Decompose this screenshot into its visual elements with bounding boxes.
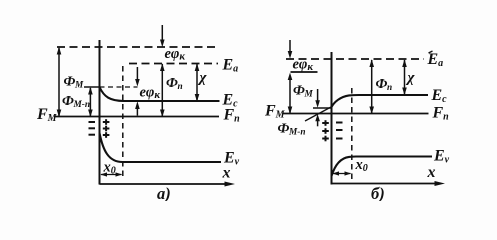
dimension chi (b) <box>402 59 407 95</box>
svg-text:x: x <box>222 165 231 182</box>
interface Ec level tick (b) <box>313 107 332 109</box>
metal vacuum level line (b) <box>291 71 318 73</box>
x0 double arrow (b) <box>332 171 351 175</box>
label Ea (b) <box>429 51 433 53</box>
Fermi level line FM-Fn (b) <box>283 113 429 115</box>
Ec peak level tick solid (a) <box>84 86 100 88</box>
x0 double arrow (a) <box>100 172 122 176</box>
dimension Phi-n (a) <box>160 63 165 117</box>
x axis (a) <box>100 182 236 187</box>
metal vacuum level dashed line (a) <box>57 46 217 48</box>
plus charges (b) <box>322 120 329 141</box>
minus charges (b) <box>336 123 343 139</box>
svg-text:χ: χ <box>198 70 208 86</box>
plus charges (a) <box>103 119 110 138</box>
dimension chi (a) <box>195 63 200 101</box>
Ea dashed line (a) <box>129 63 218 65</box>
Ec peak level dashed extension (a) <box>100 86 138 88</box>
Ev band curve (a) <box>100 133 222 162</box>
dimension Phi-n (b) <box>369 59 374 114</box>
PhiM-n leader line (b) <box>305 107 331 121</box>
svg-text:а): а) <box>157 184 171 201</box>
metal boundary vertical line (b) <box>331 52 333 185</box>
Ea dashed line (b) <box>286 58 424 60</box>
x0 depletion edge dashed line (a) <box>122 66 124 179</box>
dimension e-phi-k outside arrows (b) <box>288 40 293 80</box>
svg-text:x: x <box>427 164 436 181</box>
minus charges (a) <box>89 122 96 135</box>
Ec band curve (a) <box>100 87 220 101</box>
dimension PhiM-n outside arrows (b) <box>315 89 320 126</box>
svg-text:б): б) <box>371 184 385 201</box>
metal boundary vertical line (a) <box>99 40 101 185</box>
Fermi level line FM-Fn (a) <box>54 116 219 118</box>
dimension e-phi-k outside arrow top (a) <box>160 25 165 47</box>
dimension PhiM (b) <box>288 80 293 115</box>
dimension e-phi-k middle outside arrows (a) <box>135 67 140 116</box>
svg-text:χ: χ <box>406 70 416 86</box>
dimension PhiM (a) <box>57 47 62 117</box>
dimension PhiM-n (a) <box>88 87 93 117</box>
Ec band curve (b) <box>332 95 429 107</box>
x0 boundary dashed line (b) <box>351 88 353 179</box>
Ev band curve (b) <box>332 157 433 177</box>
x axis (b) <box>332 181 446 186</box>
